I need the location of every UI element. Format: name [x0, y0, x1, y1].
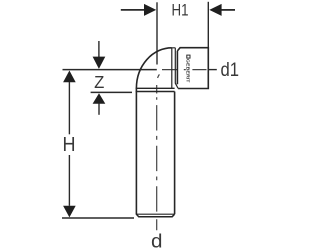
svg-text:d1: d1: [221, 60, 240, 81]
pipe right wall: [174, 92, 176, 215]
dimension H line lower: [68, 155, 70, 206]
svg-text:H1: H1: [172, 1, 189, 20]
extension line left (pipe axis): [156, 2, 158, 64]
extension line bottom (pipe end): [62, 217, 134, 219]
dimension H arrow bottom (down): [63, 206, 76, 218]
label d1 leader: [208, 69, 216, 71]
dimension Z tail bottom: [98, 104, 100, 115]
pipe left wall: [135, 88, 137, 214]
dimension H line upper: [68, 82, 70, 134]
svg-text:d: d: [151, 231, 163, 250]
extension line Z top: [63, 69, 157, 71]
dimension Z tail top: [98, 41, 100, 57]
dimension Z arrow top (down): [93, 57, 106, 69]
bend junction ring: [172, 48, 178, 89]
centerline vertical (pipe axis, dash-dot): [156, 85, 158, 230]
extension line right (socket end): [207, 2, 209, 48]
pipe bottom face with chamfered corners: [136, 214, 174, 217]
centerline horizontal (socket axis, dash-dot): [162, 69, 207, 71]
bend outer arc: [136, 48, 171, 89]
dimension H1 arrow right: [209, 4, 221, 16]
svg-text:GEBERIT: GEBERIT: [185, 59, 191, 83]
pipe bottom chamfer line: [136, 213, 175, 215]
centerline bend arc tick (dash-dot): [158, 74, 160, 78]
extension line Z bottom: [91, 91, 132, 93]
svg-text:Z: Z: [94, 72, 104, 92]
dimension H arrow top (up): [63, 71, 76, 83]
dimension H1 line right: [221, 9, 235, 11]
Geberit logo square: [187, 55, 190, 58]
svg-text:H: H: [63, 134, 76, 156]
dimension H1 arrow left: [144, 4, 156, 16]
socket body: [177, 48, 208, 89]
pipe socket rim (vertical outlet): [136, 88, 175, 91]
dimension Z arrow bottom (up): [93, 93, 106, 104]
dimension H1 line left: [121, 9, 144, 11]
